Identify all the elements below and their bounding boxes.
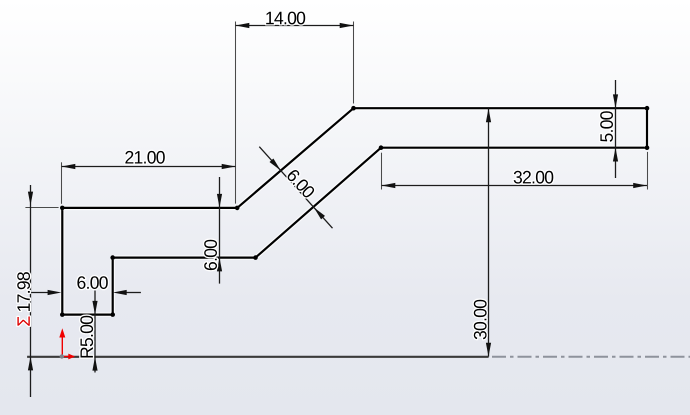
profile vertex point F (379, 145, 384, 150)
construction centerline solid segment through origin (27, 356, 489, 358)
dimension 6.00 bottom dimension line with outside arrows (31, 292, 49, 294)
profile upper diagonal edge (237, 108, 353, 208)
dimension sigma 17.98 value text (rotated, sigma in red) (17, 317, 29, 326)
dimension 6.00 middle top arrowhead (outside, pointing down) (217, 194, 222, 208)
profile left vertical edge (60, 208, 64, 315)
profile top right horizontal edge (354, 106, 648, 110)
dimension 6.00 diagonal value text (rotated 48deg) (286, 168, 316, 199)
dimension R5.00 dimension line (94, 291, 96, 373)
dimension 6.00 diagonal dimension line (perpendicular to diagonals) (259, 147, 332, 229)
dimension 30.00 top arrowhead (pointing up) (486, 108, 491, 122)
dimension 32.00 extension line left (below vertex F) (381, 153, 383, 190)
dimension 14.00 value text (266, 12, 305, 25)
dimension 30.00 bottom arrowhead (pointing down) (486, 343, 491, 357)
profile vertex point E (253, 255, 258, 260)
profile vertex point I (351, 106, 356, 111)
dimension 30.00 value text (rotated) (474, 300, 487, 340)
construction centerline dash-dot segment to right edge (492, 356, 690, 358)
profile vertex point D (110, 255, 115, 260)
dimension 17.98 dimension line (30, 185, 32, 397)
profile lower right horizontal edge (381, 145, 647, 149)
dimension R5.00 upper arrowhead (outside, pointing down) (92, 301, 97, 315)
dimension 14.00 right arrowhead (340, 23, 354, 28)
dimension 21.00 value text (125, 151, 164, 164)
dimension 6.00 diagonal lower arrowhead (outside, pointing up-left) (314, 207, 325, 219)
dimension 21.00 right arrowhead (222, 164, 236, 169)
dimension 21.00 left arrowhead (62, 164, 76, 169)
profile right vertical edge (645, 108, 649, 148)
dimension 21.00 dimension line (62, 166, 236, 168)
dimension 6.00 middle value text (rotated) (204, 240, 217, 270)
dimension 5.00 top arrowhead (outside, pointing down) (613, 94, 618, 108)
sketch origin red horizontal axis arrow (63, 354, 75, 360)
dimension 32.00 extension line right (below vertex G) (647, 152, 649, 190)
dimension 5.00 dimension line (615, 80, 617, 178)
dimension R5.00 value text (rotated) (80, 316, 93, 358)
dimension 14.00 extension line left (from vertex J up) (235, 22, 237, 204)
dimension 6.00 middle bottom arrowhead (outside, pointing up) (217, 258, 222, 272)
profile bottom step horizontal edge (62, 312, 112, 316)
dimension 6.00 bottom value text (77, 276, 107, 289)
dimension 21.00 extension line left (from vertex A up) (61, 162, 63, 204)
profile vertex point B (60, 312, 65, 317)
dimension 32.00 left arrowhead (382, 183, 396, 188)
dimension 6.00 middle vertical dimension line (219, 177, 221, 284)
dimension 17.98 extension line (left of vertex A) (25, 207, 58, 209)
profile vertex point J (235, 206, 240, 211)
dimension 32.00 right arrowhead (633, 183, 647, 188)
sketch origin point (60, 354, 64, 358)
profile vertex point H (645, 106, 650, 111)
profile middle horizontal edge (113, 255, 256, 259)
profile step right vertical edge (110, 258, 114, 315)
dimension 17.98 top arrowhead (outside, pointing down) (28, 192, 33, 206)
dimension 5.00 bottom arrowhead (outside, pointing up) (613, 148, 618, 162)
dimension 14.00 dimension line (236, 25, 354, 27)
dimension 5.00 value text (rotated) (600, 111, 613, 142)
dimension 6.00 bottom right arrowhead (outside, pointing left) (113, 290, 127, 295)
profile top left horizontal edge (62, 206, 237, 210)
sketch origin red vertical axis arrow (59, 328, 65, 355)
dimension R5.00 lower arrowhead (outside, pointing up) (92, 357, 97, 371)
dimension 32.00 dimension line (382, 185, 648, 187)
dimension 17.98 bottom arrowhead (outside, pointing up) (28, 357, 33, 371)
profile lower diagonal edge (256, 148, 382, 258)
dimension 14.00 extension line right (from vertex I up) (353, 22, 355, 104)
dimension 14.00 left arrowhead (236, 23, 250, 28)
profile vertex point A (60, 206, 65, 211)
dimension 6.00 diagonal upper arrowhead (outside, pointing down-right) (270, 159, 281, 171)
dimension 30.00 dimension line (488, 108, 490, 356)
dimension 6.00 bottom left arrowhead (outside, pointing right) (48, 290, 62, 295)
profile vertex point C (110, 312, 115, 317)
profile vertex point G (645, 145, 650, 150)
dimension 32.00 value text (514, 171, 554, 184)
